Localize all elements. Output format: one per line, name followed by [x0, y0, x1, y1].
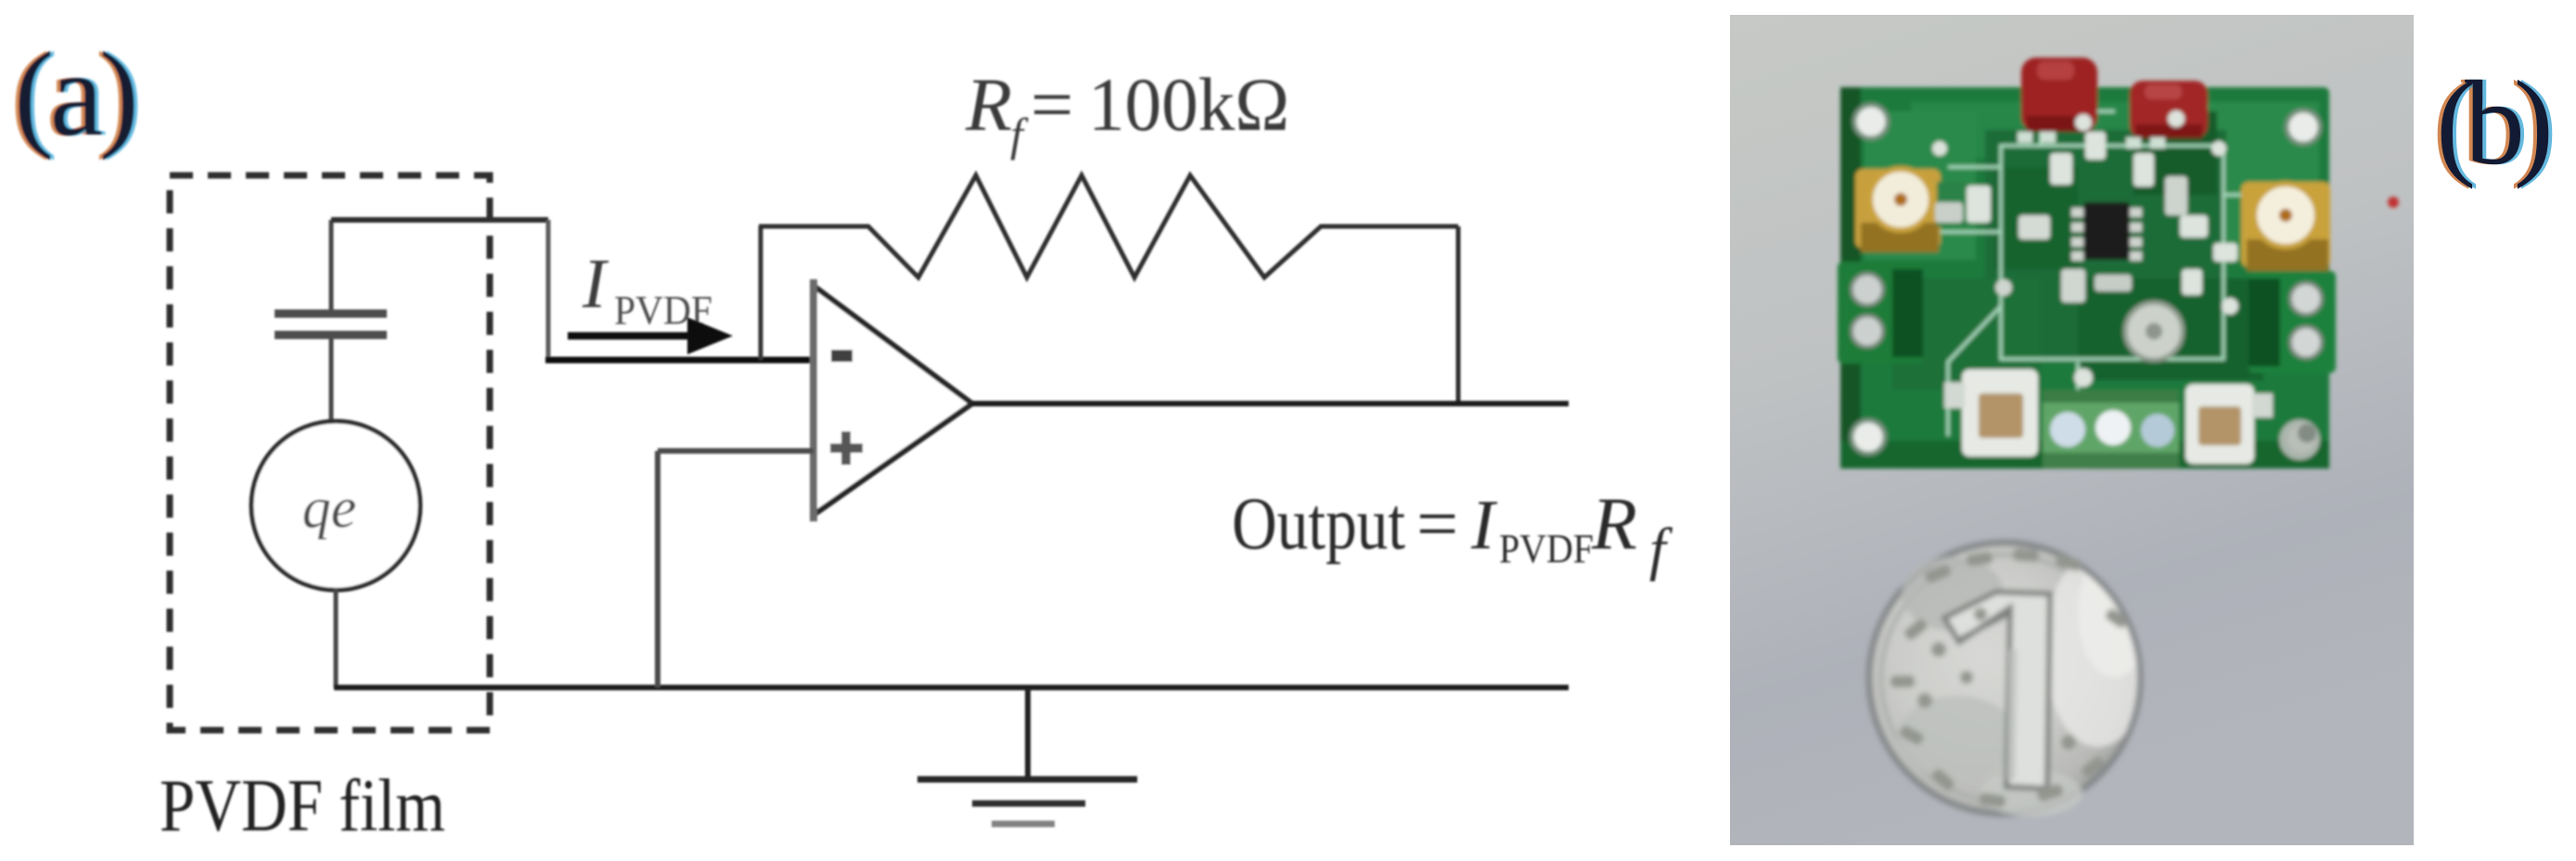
PCB board photo	[1838, 58, 2399, 469]
svg-text:f: f	[1649, 516, 1673, 582]
coin highlight	[2044, 547, 2152, 747]
ground	[917, 688, 1137, 824]
svg-text:(b): (b)	[2436, 57, 2554, 190]
wire cap bottom lead	[329, 339, 334, 425]
SMA connector left	[1855, 169, 1968, 252]
red film capacitor left	[2021, 58, 2097, 132]
label Output = I_PVDF Rf	[1232, 483, 1673, 582]
svg-text:PVDF: PVDF	[1499, 526, 1594, 572]
trimmer pot	[2125, 302, 2183, 360]
svg-text:=: =	[1031, 62, 1073, 147]
PCB photo background	[1730, 15, 2414, 845]
terminal block bottom	[2043, 390, 2179, 468]
small passive parts	[1932, 110, 2238, 387]
resistor Rf	[759, 175, 1458, 277]
svg-text:PVDF film: PVDF film	[160, 765, 445, 847]
white component bottom-right	[2185, 384, 2273, 464]
SMA connector right	[2241, 182, 2330, 271]
white component bottom-left	[1944, 369, 2038, 456]
wire feedback right vertical	[1456, 226, 1461, 405]
coin photo	[1867, 541, 2152, 816]
capacitor C (PVDF capacitance)	[275, 314, 387, 335]
wire feedback left vertical	[759, 226, 763, 360]
coin body	[1867, 541, 2142, 816]
wire non-inverting input	[658, 448, 814, 454]
svg-text:I: I	[582, 245, 609, 323]
terminal block left	[1838, 262, 1923, 364]
wire qe bottom lead	[334, 588, 339, 688]
svg-text:R: R	[1591, 483, 1637, 565]
svg-text:f: f	[1010, 109, 1029, 161]
mounting hole bottom-left	[1852, 420, 1885, 454]
PVDF film dashed box	[170, 175, 490, 730]
wire cap top lead	[329, 220, 334, 312]
op-amp U1	[814, 279, 972, 521]
wire output	[972, 401, 1569, 406]
red film capacitor right	[2130, 81, 2208, 138]
grey washer bottom right	[2279, 419, 2320, 460]
PCB silkscreen traces	[1911, 111, 2263, 436]
coin numeral 1	[1944, 592, 2050, 789]
mounting hole top-left	[1854, 105, 1888, 138]
terminal block right	[2249, 271, 2336, 373]
label I_PVDF	[582, 245, 712, 333]
svg-text:R: R	[965, 62, 1012, 147]
charge source qe	[251, 421, 420, 590]
svg-text:(a): (a)	[14, 28, 139, 161]
solder pads row top	[2018, 132, 2165, 148]
label Rf = 100k ohm	[965, 62, 1289, 161]
wire bottom rail	[334, 685, 1569, 690]
arrow I_PVDF	[568, 317, 733, 354]
IC U1	[2071, 202, 2142, 261]
wire step down	[546, 220, 551, 360]
figure label (b)	[2432, 57, 2557, 190]
red speck	[2388, 197, 2399, 208]
wire inverting input	[545, 357, 814, 364]
mounting hole top-right	[2287, 110, 2320, 144]
op-amp minus input mark	[831, 350, 852, 362]
svg-text:I: I	[1470, 486, 1498, 564]
svg-text:=: =	[1416, 483, 1458, 565]
wire non-inverting down to rail	[655, 451, 660, 688]
svg-text:100kΩ: 100kΩ	[1088, 62, 1289, 147]
svg-text:qe: qe	[302, 477, 357, 540]
wire top from capacitor	[331, 217, 548, 223]
mounting hole bottom-right	[2286, 423, 2317, 455]
figure label (a)	[10, 28, 143, 161]
op-amp plus input mark	[830, 431, 863, 465]
PCB board substrate	[1840, 87, 2329, 469]
coin surface marks	[1890, 548, 2129, 808]
svg-text:Output: Output	[1232, 483, 1405, 565]
